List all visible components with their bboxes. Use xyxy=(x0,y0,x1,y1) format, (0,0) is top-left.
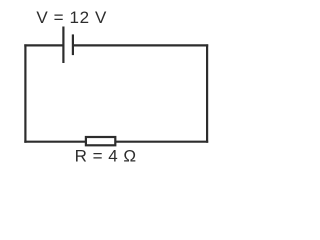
svg-text:V = 12 V: V = 12 V xyxy=(36,8,107,27)
svg-text:R = 4 Ω: R = 4 Ω xyxy=(75,147,136,166)
